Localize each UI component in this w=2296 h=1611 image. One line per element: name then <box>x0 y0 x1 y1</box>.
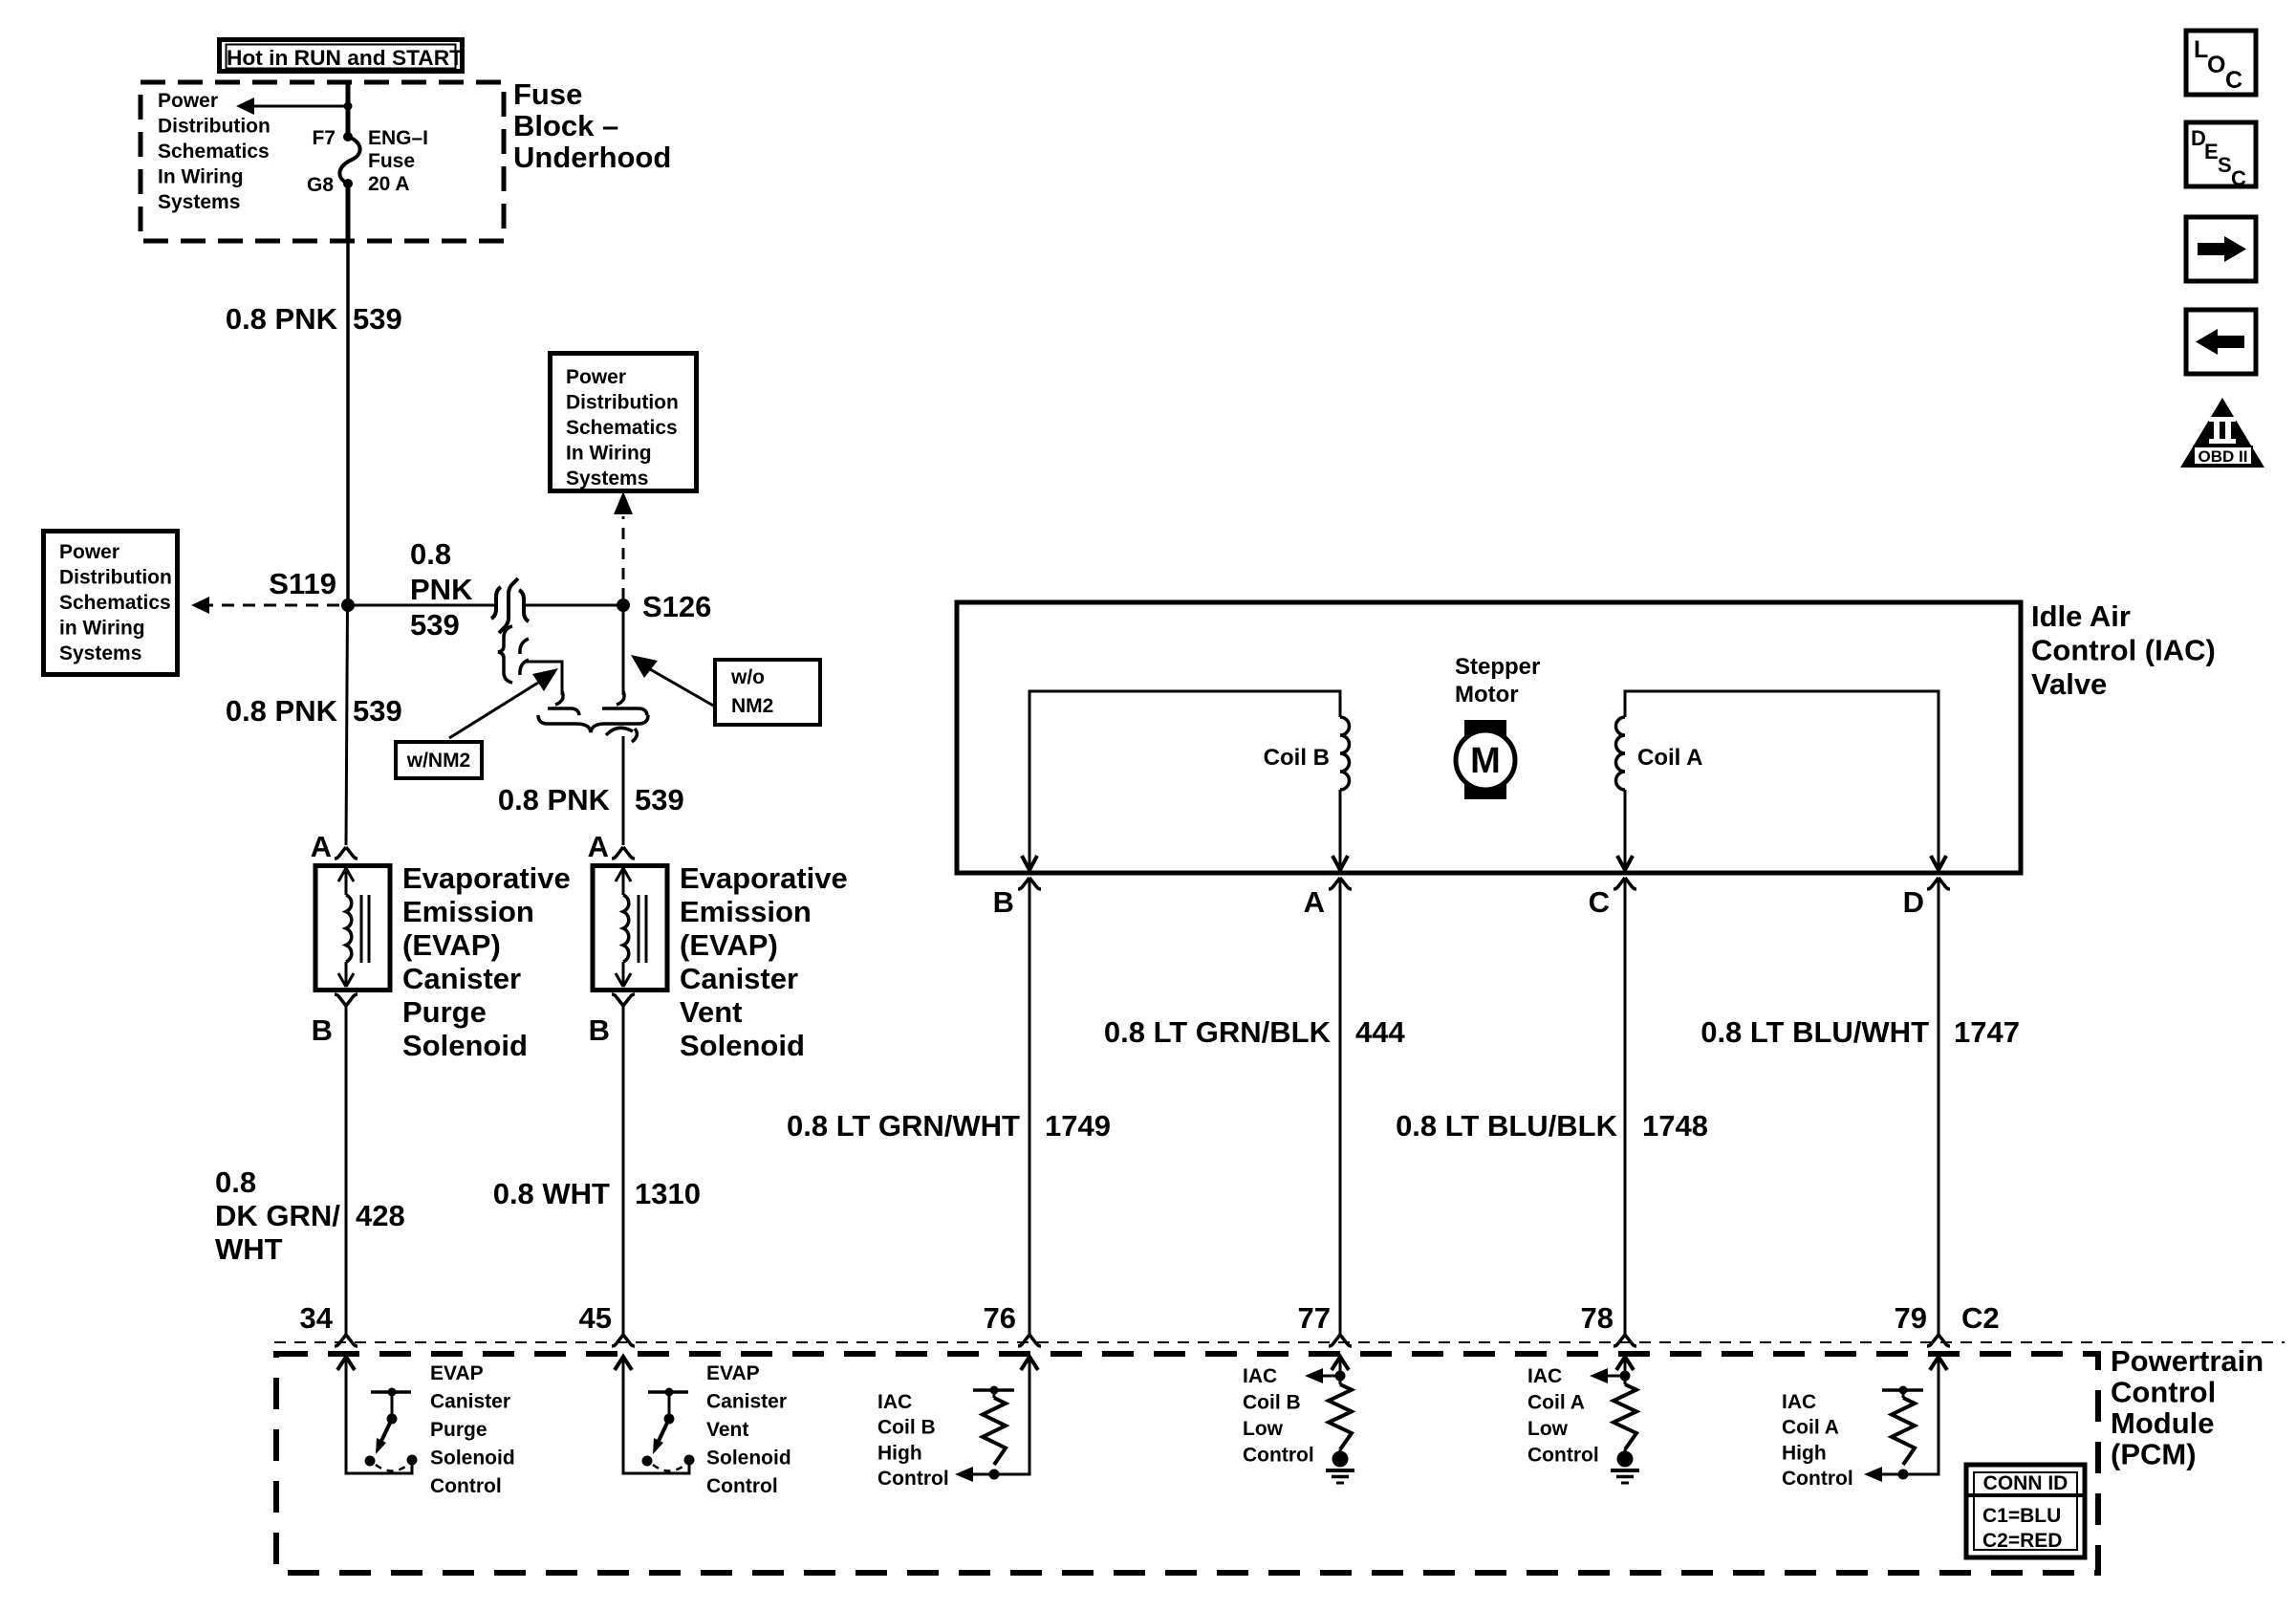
connector chevron at PCM pin 79 <box>1927 1335 1950 1346</box>
svg-text:444: 444 <box>1355 1015 1405 1049</box>
svg-text:OBD II: OBD II <box>2199 447 2248 466</box>
wire: purge solenoid B to PCM pin 34 <box>345 1006 348 1335</box>
svg-text:Fuse: Fuse <box>368 150 415 172</box>
svg-text:Control: Control <box>430 1475 502 1497</box>
wire: coil B loop inside IAC valve <box>1029 691 1340 871</box>
svg-text:S: S <box>2218 153 2232 177</box>
svg-text:34: 34 <box>300 1301 334 1335</box>
driver label: IAC Coil A High Control <box>1782 1391 1853 1490</box>
icon box arrow left <box>2186 310 2256 374</box>
resume hook below merge brace <box>606 728 637 742</box>
icon box arrow right <box>2186 217 2256 281</box>
svg-text:Hot in RUN and START: Hot in RUN and START <box>227 46 464 70</box>
svg-text:w/NM2: w/NM2 <box>406 750 471 772</box>
wire: w/o NM2 straight option from S126 <box>622 605 625 695</box>
fuse G8 terminal dot <box>343 179 353 188</box>
break hook at w/NM2 branch end <box>548 691 579 715</box>
svg-text:Control: Control <box>877 1468 949 1490</box>
option tag box w/NM2 <box>396 742 482 778</box>
icon box LOC <box>2186 31 2256 95</box>
svg-text:45: 45 <box>579 1301 612 1335</box>
IAC coil A low control driver with ground (pin 78) <box>1590 1357 1639 1483</box>
svg-text:ENG–I: ENG–I <box>368 127 428 149</box>
arrow into terminal D (inside IAC) <box>1931 856 1946 870</box>
svg-text:Idle Air: Idle Air <box>2031 599 2131 633</box>
driver label: IAC Coil B Low Control <box>1243 1365 1314 1467</box>
svg-text:Solenoid: Solenoid <box>402 1029 528 1062</box>
svg-text:Solenoid: Solenoid <box>430 1448 515 1469</box>
inline harness break marks on S119-S126 wire <box>491 578 529 633</box>
wire: coil A to terminal C leg <box>1624 790 1627 871</box>
IAC valve enclosure box <box>957 602 2021 873</box>
connector at IAC terminal A <box>1329 878 1352 889</box>
svg-text:w/o: w/o <box>730 666 765 688</box>
value label: ENG-I Fuse 20 A <box>368 127 428 195</box>
svg-text:C2=RED: C2=RED <box>1982 1530 2062 1552</box>
svg-text:in Wiring: in Wiring <box>59 618 145 640</box>
driver label: IAC Coil A Low Control <box>1527 1365 1599 1467</box>
svg-text:Schematics: Schematics <box>566 417 678 439</box>
svg-text:Canister: Canister <box>706 1391 787 1413</box>
svg-text:EVAP: EVAP <box>430 1362 484 1384</box>
svg-text:B: B <box>589 1013 610 1047</box>
svg-text:(PCM): (PCM) <box>2111 1438 2197 1471</box>
svg-text:Valve: Valve <box>2031 667 2107 701</box>
svg-text:1749: 1749 <box>1045 1109 1111 1143</box>
connector chevron at PCM pin 34 <box>335 1335 357 1346</box>
component label: Evaporative Emission (EVAP) Canister Purge Solenoid <box>402 861 571 1062</box>
svg-text:DK GRN/: DK GRN/ <box>215 1199 340 1232</box>
connector chevron at PCM pin 78 <box>1614 1335 1636 1346</box>
svg-text:Distribution: Distribution <box>158 116 271 138</box>
branch hook w/NM2 takeoff <box>520 639 529 675</box>
svg-text:NM2: NM2 <box>731 695 773 717</box>
svg-text:Power: Power <box>158 90 218 112</box>
svg-text:IAC: IAC <box>877 1391 912 1413</box>
svg-text:Schematics: Schematics <box>158 141 270 163</box>
svg-text:Emission: Emission <box>402 895 534 928</box>
svg-text:Distribution: Distribution <box>59 567 172 589</box>
svg-text:M: M <box>1470 741 1501 781</box>
svg-text:S119: S119 <box>269 567 336 600</box>
connector chevron at PCM pin 45 <box>612 1335 635 1346</box>
splice S126 node <box>617 599 630 612</box>
svg-text:Canister: Canister <box>430 1391 510 1413</box>
wire: vent solenoid B to PCM pin 45 <box>622 1006 625 1335</box>
wire: IAC A to PCM pin 77 <box>1339 878 1342 1335</box>
svg-text:Powertrain: Powertrain <box>2111 1344 2264 1378</box>
wire label stack 0.8 / DK GRN/ / WHT <box>215 1165 340 1266</box>
svg-text:0.8: 0.8 <box>215 1165 256 1199</box>
icon OBD II triangle <box>2180 398 2264 468</box>
svg-text:B: B <box>993 885 1014 919</box>
component label: Powertrain Control Module (PCM) <box>2111 1344 2264 1471</box>
svg-text:Underhood: Underhood <box>513 141 671 174</box>
svg-text:Control: Control <box>1243 1445 1314 1467</box>
IAC coil A high control resistor (pin 79) <box>1864 1357 1947 1482</box>
svg-text:S126: S126 <box>642 590 711 623</box>
IAC coil B high control resistor (pin 76) <box>955 1357 1038 1482</box>
svg-text:A: A <box>1304 885 1325 919</box>
wire: S119 down to purge solenoid terminal A <box>346 605 348 845</box>
svg-text:539: 539 <box>635 783 684 816</box>
svg-text:IAC: IAC <box>1527 1365 1562 1387</box>
reference box: Power Distribution Schematics In Wiring Systems (top middle) <box>551 354 697 491</box>
svg-text:Control (IAC): Control (IAC) <box>2031 634 2216 667</box>
wire: coil B to terminal A leg <box>1339 790 1342 871</box>
svg-text:Canister: Canister <box>680 962 798 995</box>
svg-text:Control: Control <box>1527 1445 1599 1467</box>
svg-text:1748: 1748 <box>1642 1109 1708 1143</box>
dashed wire S126 up to reference box with arrow <box>614 491 633 599</box>
connector chevron at PCM pin 77 <box>1329 1335 1352 1346</box>
svg-text:Motor: Motor <box>1455 682 1519 708</box>
wire: coil A loop inside IAC valve <box>1625 691 1939 871</box>
reference text: Power Distribution Schematics In Wiring Systems (fuse block) <box>158 90 271 213</box>
svg-text:77: 77 <box>1298 1301 1331 1335</box>
wire: merged 0.8 PNK 539 down to vent solenoid <box>622 736 625 845</box>
svg-text:Systems: Systems <box>59 642 141 664</box>
svg-text:539: 539 <box>410 608 460 642</box>
connector at purge terminal B <box>335 994 357 1006</box>
fuse block - underhood dashed enclosure <box>141 82 504 241</box>
svg-text:539: 539 <box>353 694 402 728</box>
svg-text:C: C <box>2225 67 2242 94</box>
svg-text:O: O <box>2207 52 2225 78</box>
svg-text:0.8 PNK: 0.8 PNK <box>226 302 338 336</box>
svg-text:Coil B: Coil B <box>877 1417 936 1439</box>
svg-text:Low: Low <box>1527 1418 1569 1440</box>
wire: w/NM2 option branch <box>525 662 562 695</box>
svg-text:Vent: Vent <box>706 1419 748 1441</box>
stepper motor M <box>1456 720 1515 799</box>
IAC coil B low control driver with ground (pin 77) <box>1305 1357 1354 1483</box>
svg-text:20 A: 20 A <box>368 173 410 195</box>
svg-text:CONN ID: CONN ID <box>1983 1472 2069 1494</box>
svg-text:Systems: Systems <box>566 468 648 490</box>
svg-text:539: 539 <box>353 302 402 336</box>
svg-text:C: C <box>1589 885 1610 919</box>
PCM connector boundary (thin dashed) <box>274 1341 2285 1343</box>
EVAP canister purge solenoid coil <box>315 866 390 991</box>
svg-text:Vent: Vent <box>680 995 742 1029</box>
svg-text:Schematics: Schematics <box>59 592 171 614</box>
inductor coil B winding <box>1340 717 1350 790</box>
svg-text:Control: Control <box>706 1475 778 1497</box>
connector at IAC terminal C <box>1614 878 1636 889</box>
wire: 0.8 PNK 539 segment fuse block to S119 <box>346 241 350 605</box>
arrow into terminal A (inside IAC) <box>1332 856 1348 870</box>
svg-text:Solenoid: Solenoid <box>680 1029 805 1062</box>
component label: Idle Air Control (IAC) Valve <box>2031 599 2216 701</box>
svg-text:Coil A: Coil A <box>1637 745 1702 771</box>
svg-text:C2: C2 <box>1961 1301 2000 1335</box>
wire: G8 down out of fuse block <box>346 184 351 241</box>
svg-text:E: E <box>2204 140 2219 163</box>
svg-text:Power: Power <box>59 541 119 563</box>
svg-text:L: L <box>2194 36 2208 63</box>
component label: Fuse Block - Underhood <box>513 77 671 174</box>
CONN ID table <box>1966 1465 2085 1557</box>
svg-text:G8: G8 <box>307 174 334 196</box>
svg-text:76: 76 <box>984 1301 1016 1335</box>
connector chevron at PCM pin 76 <box>1018 1335 1041 1346</box>
svg-text:IAC: IAC <box>1243 1365 1277 1387</box>
arrow into terminal C (inside IAC) <box>1617 856 1633 870</box>
svg-text:1310: 1310 <box>635 1177 701 1210</box>
driver label: EVAP Canister Vent Solenoid Control <box>706 1362 791 1497</box>
svg-text:WHT: WHT <box>215 1232 283 1266</box>
svg-text:Control: Control <box>2111 1376 2216 1409</box>
svg-text:(EVAP): (EVAP) <box>680 928 778 962</box>
wire: IAC D to PCM pin 79 <box>1938 878 1940 1335</box>
stepper motor label <box>1455 654 1540 708</box>
arrow into terminal B (inside IAC) <box>1022 856 1037 870</box>
svg-text:In Wiring: In Wiring <box>158 166 244 188</box>
svg-text:F7: F7 <box>312 127 336 149</box>
svg-text:0.8 PNK: 0.8 PNK <box>498 783 611 816</box>
svg-text:Distribution: Distribution <box>566 392 679 414</box>
svg-text:In Wiring: In Wiring <box>566 443 652 465</box>
svg-text:High: High <box>877 1442 922 1464</box>
fuse ENG-I 20A element (S-curve) <box>339 137 359 184</box>
svg-text:Power: Power <box>566 366 626 388</box>
arrow to power distribution schematics (left) <box>236 98 348 115</box>
arrow from w/o NM2 tag to straight option <box>631 655 715 707</box>
svg-text:High: High <box>1782 1442 1827 1464</box>
driver label: EVAP Canister Purge Solenoid Control <box>430 1362 515 1497</box>
option tag box w/o NM2 <box>715 660 820 725</box>
arrow from w/NM2 tag to branch <box>449 668 558 738</box>
splice S119 node <box>341 599 355 612</box>
wire: IAC B to PCM pin 76 <box>1029 878 1031 1335</box>
svg-text:Solenoid: Solenoid <box>706 1448 791 1469</box>
svg-text:Emission: Emission <box>680 895 812 928</box>
svg-text:Stepper: Stepper <box>1455 654 1540 680</box>
connector at IAC terminal B <box>1018 878 1041 889</box>
svg-text:0.8 LT BLU/WHT: 0.8 LT BLU/WHT <box>1700 1015 1929 1049</box>
svg-text:Fuse: Fuse <box>513 77 582 111</box>
svg-text:1747: 1747 <box>1954 1015 2020 1049</box>
svg-text:0.8 PNK: 0.8 PNK <box>226 694 338 728</box>
PCM dashed enclosure <box>276 1354 2098 1573</box>
svg-text:Purge: Purge <box>402 995 487 1029</box>
option brace for w/NM2 branch <box>498 626 512 683</box>
merge brace joining both options <box>538 715 648 732</box>
wire: feed inside fuse block (vertical) <box>346 84 351 137</box>
inductor coil A winding <box>1616 717 1626 790</box>
svg-text:Coil A: Coil A <box>1782 1417 1839 1439</box>
fuse F7 terminal dot <box>343 132 353 142</box>
EVAP canister vent solenoid coil <box>593 866 667 991</box>
wire label stack 0.8 / PNK / 539 (between splices) <box>410 537 473 642</box>
svg-text:C1=BLU: C1=BLU <box>1982 1505 2061 1527</box>
icon box DESC <box>2186 122 2256 190</box>
svg-text:Systems: Systems <box>158 191 240 213</box>
connector at vent terminal A <box>612 847 635 859</box>
svg-text:D: D <box>1903 885 1924 919</box>
svg-text:B: B <box>312 1013 333 1047</box>
svg-text:EVAP: EVAP <box>706 1362 760 1384</box>
svg-text:0.8 LT BLU/BLK: 0.8 LT BLU/BLK <box>1396 1109 1618 1143</box>
component label: Evaporative Emission (EVAP) Canister Vent Solenoid <box>680 861 848 1062</box>
connector at vent terminal B <box>612 994 635 1006</box>
svg-text:78: 78 <box>1581 1301 1614 1335</box>
svg-text:Coil A: Coil A <box>1527 1392 1585 1414</box>
EVAP canister vent solenoid control driver (pin 45) <box>615 1357 695 1473</box>
svg-text:C: C <box>2231 166 2246 190</box>
svg-text:428: 428 <box>356 1199 405 1232</box>
svg-text:Control: Control <box>1782 1468 1853 1490</box>
wire: IAC C to PCM pin 78 <box>1624 878 1627 1335</box>
svg-text:Block –: Block – <box>513 109 618 142</box>
svg-text:A: A <box>311 830 332 863</box>
reference box: Power Distribution Schematics in Wiring Systems (left) <box>44 532 178 675</box>
dashed wire from S119 to left reference box with arrow <box>191 597 339 614</box>
wire: S119 to S126 (horizontal 0.8 PNK 539) <box>348 604 623 607</box>
junction node on fuse feed <box>344 102 353 111</box>
svg-text:Coil B: Coil B <box>1243 1392 1301 1414</box>
svg-text:(EVAP): (EVAP) <box>402 928 501 962</box>
svg-text:Coil B: Coil B <box>1264 745 1330 771</box>
svg-text:PNK: PNK <box>410 573 473 606</box>
svg-text:Canister: Canister <box>402 962 521 995</box>
connector at purge terminal A <box>335 847 357 859</box>
connector at IAC terminal D <box>1927 878 1950 889</box>
svg-text:Module: Module <box>2111 1406 2215 1440</box>
svg-text:A: A <box>588 830 609 863</box>
svg-text:0.8: 0.8 <box>410 537 451 571</box>
svg-text:Evaporative: Evaporative <box>402 861 571 895</box>
svg-text:Evaporative: Evaporative <box>680 861 848 895</box>
svg-text:0.8 LT GRN/BLK: 0.8 LT GRN/BLK <box>1104 1015 1332 1049</box>
break hook at w/o NM2 option end <box>602 691 647 715</box>
svg-text:Purge: Purge <box>430 1419 487 1441</box>
svg-text:79: 79 <box>1895 1301 1927 1335</box>
svg-text:Low: Low <box>1243 1418 1284 1440</box>
EVAP canister purge solenoid control driver (pin 34) <box>337 1357 418 1473</box>
driver label: IAC Coil B High Control <box>877 1391 949 1490</box>
svg-text:IAC: IAC <box>1782 1391 1816 1413</box>
svg-text:0.8 WHT: 0.8 WHT <box>493 1177 610 1210</box>
svg-text:0.8 LT GRN/WHT: 0.8 LT GRN/WHT <box>787 1109 1020 1143</box>
label box: Hot in RUN and START <box>220 40 464 72</box>
